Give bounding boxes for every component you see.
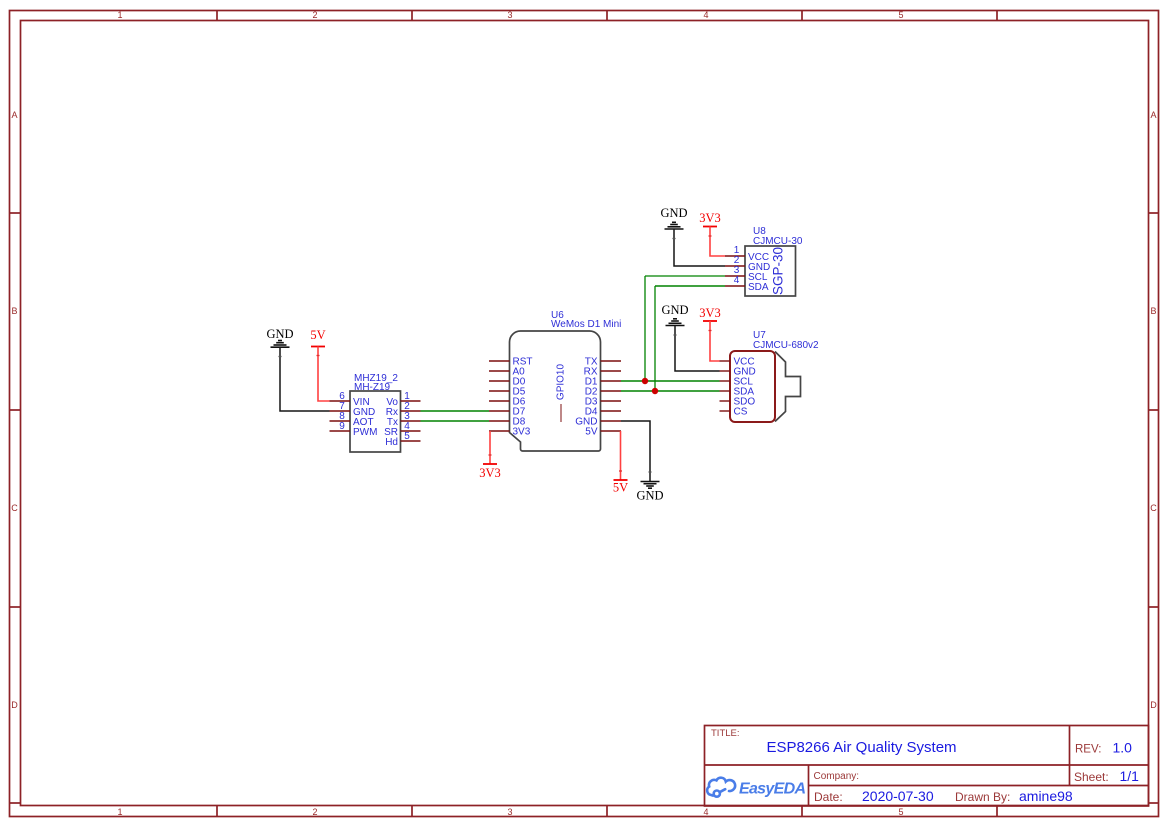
svg-text:9: 9 [339, 421, 345, 432]
svg-text:3V3: 3V3 [479, 466, 501, 480]
svg-text:3: 3 [507, 807, 512, 817]
svg-text:3: 3 [507, 10, 512, 20]
svg-text:CJMCU-680v2: CJMCU-680v2 [753, 340, 819, 351]
svg-text:PWM: PWM [353, 427, 377, 438]
svg-text:1: 1 [117, 807, 122, 817]
svg-text:Hd: Hd [385, 437, 398, 448]
svg-text:3V3: 3V3 [699, 211, 721, 225]
svg-text:5: 5 [404, 431, 410, 442]
svg-text:GND: GND [636, 489, 663, 503]
svg-text:Drawn By:: Drawn By: [955, 790, 1010, 804]
svg-text:C: C [11, 503, 18, 513]
svg-text:MH-Z19: MH-Z19 [354, 382, 391, 393]
svg-text:B: B [11, 306, 17, 316]
svg-text:5V: 5V [613, 481, 628, 495]
svg-text:CJMCU-30: CJMCU-30 [753, 236, 803, 247]
svg-text:1/1: 1/1 [1120, 768, 1140, 784]
svg-text:Date:: Date: [814, 790, 843, 804]
svg-text:4: 4 [734, 275, 740, 286]
svg-text:Sheet:: Sheet: [1074, 770, 1109, 784]
svg-text:2: 2 [312, 10, 317, 20]
svg-text:B: B [1150, 306, 1156, 316]
svg-text:D: D [11, 700, 18, 710]
svg-text:CS: CS [734, 407, 748, 418]
svg-text:5V: 5V [310, 328, 325, 342]
svg-text:ESP8266 Air Quality System: ESP8266 Air Quality System [766, 739, 956, 756]
svg-text:1.0: 1.0 [1113, 740, 1133, 756]
svg-text:WeMos D1 Mini: WeMos D1 Mini [551, 319, 621, 330]
svg-text:3V3: 3V3 [513, 427, 531, 438]
svg-text:SDA: SDA [748, 282, 769, 293]
svg-text:3V3: 3V3 [699, 306, 721, 320]
svg-text:A: A [11, 110, 17, 120]
svg-text:4: 4 [703, 807, 708, 817]
svg-text:A: A [1150, 110, 1156, 120]
svg-text:4: 4 [703, 10, 708, 20]
svg-text:amine98: amine98 [1019, 788, 1073, 804]
svg-text:GND: GND [266, 327, 293, 341]
svg-text:SGP-30: SGP-30 [771, 247, 786, 295]
svg-text:2: 2 [312, 807, 317, 817]
svg-text:EasyEDA: EasyEDA [739, 781, 806, 798]
svg-text:D: D [1150, 700, 1157, 710]
svg-text:GPIO10: GPIO10 [556, 364, 567, 401]
svg-text:5: 5 [898, 10, 903, 20]
svg-text:5V: 5V [585, 427, 598, 438]
svg-text:5: 5 [898, 807, 903, 817]
svg-text:GND: GND [661, 303, 688, 317]
svg-text:Company:: Company: [814, 771, 860, 782]
svg-text:1: 1 [117, 10, 122, 20]
svg-text:C: C [1150, 503, 1157, 513]
svg-text:REV:: REV: [1075, 744, 1101, 756]
svg-text:TITLE:: TITLE: [711, 728, 740, 739]
svg-text:GND: GND [660, 206, 687, 220]
svg-text:2020-07-30: 2020-07-30 [862, 788, 934, 804]
